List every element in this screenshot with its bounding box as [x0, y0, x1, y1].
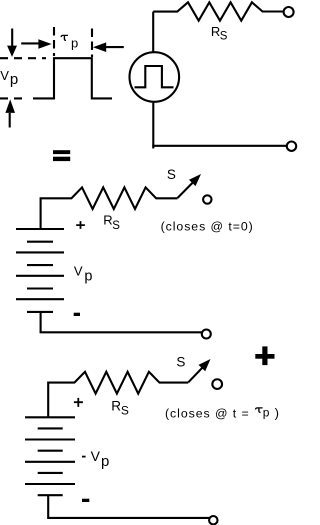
svg-text:R: R — [111, 399, 121, 414]
svg-text:p: p — [71, 35, 78, 50]
svg-text:p: p — [101, 453, 109, 470]
svg-text:R: R — [103, 213, 112, 228]
svg-text:V: V — [0, 68, 9, 83]
svg-text:(closes @ t =: (closes @ t = — [165, 407, 250, 421]
svg-text:): ) — [275, 406, 279, 421]
svg-text:S: S — [112, 220, 120, 232]
svg-text:S: S — [176, 354, 185, 369]
svg-text:p: p — [84, 269, 92, 285]
svg-text:S: S — [220, 30, 228, 42]
svg-text:(closes @ t=0): (closes @ t=0) — [161, 219, 254, 233]
svg-text:V: V — [91, 448, 101, 464]
svg-text:V: V — [74, 264, 83, 279]
svg-text:p: p — [10, 71, 18, 88]
svg-text:S: S — [121, 404, 129, 418]
svg-text:p: p — [263, 406, 270, 420]
svg-text:S: S — [167, 167, 176, 182]
